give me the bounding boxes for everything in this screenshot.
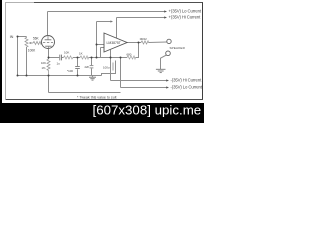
svg-text:SPEAKER: SPEAKER [170, 46, 186, 50]
wire bottom return run [49, 92, 121, 94]
junction filter ground [77, 75, 79, 77]
wire feedback row [97, 57, 128, 59]
wire signal line segment D [89, 57, 97, 59]
junction input node [17, 36, 19, 38]
tube V1 envelope [42, 36, 55, 49]
wire output lead [127, 42, 141, 44]
wire +V Hi rail [117, 17, 166, 19]
wire op-amp V- drop [110, 50, 112, 81]
svg-text:LM3875T: LM3875T [107, 41, 121, 45]
speaker terminal bottom [166, 51, 171, 56]
resistor 56K [33, 41, 42, 44]
wire shunt cap 1 lower [77, 69, 79, 75]
tube grid [43, 42, 53, 44]
junction filter node [77, 57, 79, 59]
wire -V Lo drop [120, 58, 122, 88]
junction feedback node [120, 57, 122, 59]
junction output node [138, 42, 140, 44]
svg-text:680: 680 [127, 53, 132, 57]
svg-text:56K: 56K [33, 37, 40, 41]
wire bottom return drop [48, 76, 50, 93]
resistor 1K series [80, 56, 89, 59]
wire plate supply drop [47, 12, 49, 36]
wire speaker return elbow [161, 55, 167, 69]
wire input ground drop [17, 37, 19, 76]
wire shunt 2 lower [91, 68, 93, 75]
junction shunt node [91, 57, 93, 59]
ground speaker [156, 68, 166, 70]
junction input row [96, 57, 98, 59]
wire signal line segment A [49, 57, 60, 59]
capacitor 1u coupling [59, 55, 61, 61]
junction plus input [96, 44, 98, 46]
svg-text:1u: 1u [57, 61, 61, 65]
junction V- row [110, 57, 112, 59]
junction cathode ground [48, 75, 50, 77]
svg-text:[607x308] upic.me: [607x308] upic.me [93, 102, 202, 117]
svg-text:100u: 100u [103, 65, 110, 69]
capacitor 22K shunt 2 [90, 65, 94, 67]
svg-text:0R22: 0R22 [140, 37, 147, 41]
svg-text:*100: *100 [67, 69, 73, 73]
wire decoupling bracket [102, 61, 116, 76]
watermark left bar [0, 0, 2, 123]
svg-text:100K: 100K [28, 49, 36, 53]
wire input [18, 36, 27, 38]
svg-text:+(35V) Hi Current: +(35V) Hi Current [169, 15, 202, 20]
svg-text:-(35V) Lo Current: -(35V) Lo Current [171, 84, 203, 89]
svg-text:+(35V) Lo Current: +(35V) Lo Current [169, 9, 202, 14]
resistor 0R22 output [141, 41, 149, 44]
wire -V Lo rail [121, 87, 167, 89]
potentiometer 100K [25, 37, 28, 48]
svg-text:1K: 1K [79, 52, 83, 56]
wire signal line segment C [73, 57, 80, 59]
resistor 680 feedback [127, 56, 136, 59]
wire +V Lo rail [48, 11, 166, 13]
speaker terminal top [167, 39, 171, 43]
potentiometer wiper arrow [30, 42, 33, 44]
mute arrowhead [110, 20, 113, 22]
watermark bottom bar [0, 103, 204, 123]
capacitor *100 shunt [75, 66, 80, 68]
svg-text:* Tweak this value to suit: * Tweak this value to suit [77, 96, 117, 100]
wire signal line segment B [62, 57, 64, 59]
op-amp U1 LM3875T [104, 33, 127, 52]
svg-text:1%: 1% [42, 66, 47, 70]
tube plate [47, 36, 49, 40]
wire op-amp V+ drop [116, 18, 118, 39]
wire cathode lead [48, 48, 50, 59]
wire mute line [97, 21, 111, 23]
junction pot ground [26, 75, 28, 77]
ground rail symbol [92, 75, 94, 77]
cathode resistor 10K [47, 59, 50, 75]
svg-text:22K: 22K [85, 65, 90, 69]
wire pot cold end drop [26, 47, 28, 76]
wire ground rail [18, 75, 102, 77]
junction dots [17, 36, 140, 77]
resistor 10K series [64, 56, 74, 59]
schematic frame border [6, 2, 204, 100]
junction cathode node [48, 57, 50, 59]
wire minus input [101, 47, 105, 49]
junction input ground [17, 75, 19, 77]
wire output to speaker [149, 41, 167, 44]
wire -V Hi rail [111, 80, 167, 82]
wire plus input [97, 44, 105, 46]
supply arrowheads [164, 10, 167, 12]
svg-text:-(35V) Hi Current: -(35V) Hi Current [171, 78, 203, 83]
capacitor 100u decoupling [112, 63, 114, 71]
svg-text:10K: 10K [41, 61, 46, 65]
wire inverting input riser [96, 22, 98, 58]
wire minus input drop2 [100, 48, 102, 58]
tube cathode [45, 45, 51, 47]
wire feedback row right [136, 43, 139, 58]
wire shunt 2 drop [91, 58, 93, 66]
svg-text:10K: 10K [64, 51, 69, 55]
svg-text:IN: IN [10, 35, 14, 39]
wire shunt cap 1 drop [77, 58, 79, 67]
